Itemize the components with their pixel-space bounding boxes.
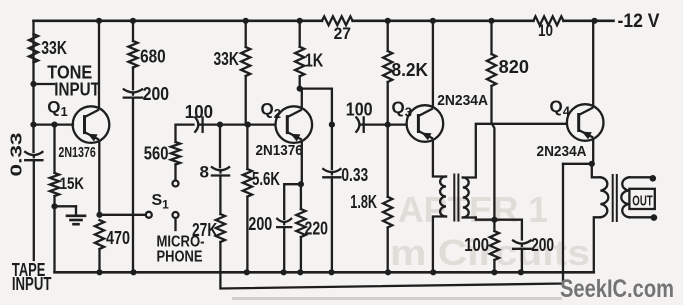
svg-text:INPUT: INPUT (12, 274, 52, 294)
transistor Q3 (407, 105, 444, 142)
wire bottom ground rail (55, 271, 594, 274)
svg-text:10: 10 (538, 21, 553, 40)
svg-text:27K: 27K (192, 220, 217, 240)
svg-text:0.33: 0.33 (341, 165, 368, 185)
wire top supply rail left segment (34, 19, 323, 22)
svg-text:200: 200 (531, 235, 554, 255)
wire 820 top lead (490, 21, 492, 54)
switch S1 pole contact (146, 212, 152, 218)
wire 200 cap bottom (281, 227, 287, 275)
resistor 27K (216, 214, 225, 242)
svg-text:33K: 33K (41, 38, 67, 58)
wire 33K2 top lead (243, 18, 249, 47)
svg-text:100: 100 (185, 102, 213, 122)
wire 680 to 200 cap (132, 68, 134, 90)
wire 470 bottom (96, 249, 102, 275)
wire 8uF top lead (219, 125, 221, 168)
transformer T2 primary winding (600, 177, 608, 217)
wire Q3 collector to rail (430, 18, 436, 107)
svg-text:27: 27 (334, 24, 351, 43)
resistor 15K (50, 173, 59, 196)
wire to ground symbol (55, 206, 77, 215)
wire Q4 emitter lead (592, 139, 594, 164)
resistor 33K (Q2 bias upper) (241, 47, 250, 76)
wire 8uF to 27K (219, 176, 221, 215)
wire 5.6K top lead (246, 125, 248, 169)
ground (67, 216, 85, 224)
wire tone input stub (34, 83, 55, 85)
svg-text:1.8K: 1.8K (350, 192, 377, 212)
wire T1 secondary bottom to node (463, 218, 495, 220)
ghost smudge bottom (232, 297, 562, 300)
wire Q2 collector lead (301, 89, 303, 108)
wire left column vertical (rail to 0.33 cap) (32, 21, 34, 152)
wire 15K bottom to ground rail (53, 196, 55, 272)
transistor Q1 (73, 106, 110, 143)
node tone-input junction (30, 81, 36, 87)
svg-text:2N1376: 2N1376 (256, 142, 303, 159)
resistor 560 (171, 142, 180, 165)
node Q2 emitter junction (298, 181, 304, 187)
resistor 820 (487, 54, 496, 86)
wire 8.2K bottom lead (387, 82, 389, 125)
wire 100cap to 560 corner (176, 125, 194, 142)
resistor 10 (inline, top rail) (533, 16, 563, 25)
resistor 1K (295, 47, 304, 77)
wire 0.33 bottom lead (328, 177, 334, 275)
capacitor 200 (first stage bypass) (124, 89, 142, 97)
svg-text:100: 100 (464, 235, 489, 255)
wire Q1 collector to rail (96, 18, 102, 109)
node T1 secondary bottom junction (491, 217, 497, 223)
wire 1.8K bottom lead (385, 228, 391, 276)
svg-text:200: 200 (143, 84, 169, 104)
transformer T2 core (613, 175, 617, 221)
svg-text:15K: 15K (60, 174, 85, 193)
wire 560 to S1 throw contact (174, 165, 176, 181)
svg-text:8: 8 (200, 163, 210, 182)
wire emitter to 200 cap (284, 184, 301, 219)
wire node to 200 cap (494, 220, 522, 240)
svg-text:100: 100 (346, 100, 373, 120)
capacitor 100 (coupling to Q3) (356, 117, 363, 131)
wire 33K2 bottom lead (245, 76, 247, 125)
node 8uF junction on Q2 base (217, 122, 223, 128)
resistor 470 (95, 220, 104, 249)
svg-text:OUT: OUT (632, 193, 652, 210)
svg-text:560: 560 (144, 143, 169, 163)
node 33K/5.6K junction on Q2 base (245, 122, 251, 128)
svg-text:5.6K: 5.6K (252, 169, 280, 189)
wire Q1 base (34, 123, 74, 125)
resistor 33K (R1) (29, 34, 38, 63)
capacitor 0.33 (tape input coupling) (25, 152, 42, 260)
node 470-S1 junction (96, 212, 102, 218)
node Q4 emitter junction (589, 161, 595, 167)
wire junction to S1 contact (100, 214, 146, 216)
OUT terminal box (629, 189, 654, 209)
switch S1 throw contact lower (173, 212, 179, 218)
wire Q2 base line (203, 123, 276, 125)
wire Q2 emitter lead (301, 141, 303, 184)
svg-text:470: 470 (106, 228, 130, 248)
svg-text:1K: 1K (305, 51, 324, 71)
transformer T2 secondary winding (621, 177, 629, 217)
wire 5.6K bottom lead (244, 197, 250, 276)
wire collector node to 0.33 column (300, 89, 332, 125)
svg-text:2N234A: 2N234A (437, 92, 488, 109)
wire T2 primary top lead (592, 164, 601, 178)
resistor 1.8K (383, 197, 392, 228)
wire Q1 emitter down (98, 141, 100, 215)
wire top supply rail right segment (564, 19, 614, 22)
wire 15K top lead (51, 122, 57, 173)
node 820 top (488, 18, 494, 24)
resistor 27 (inline, top rail) (322, 16, 353, 25)
svg-text:680: 680 (140, 47, 166, 67)
wire 220 bottom (297, 237, 303, 275)
wire second bottom rail (27K to Q4 emitter) (220, 164, 563, 289)
wire T1 secondary top to Q4 base (463, 124, 567, 178)
wire T1 primary bottom to ground (430, 217, 446, 276)
wire 680 column top lead (132, 21, 134, 41)
svg-text:INPUT: INPUT (54, 80, 100, 100)
wire Q3 emitter to T1 primary (433, 140, 446, 177)
svg-text:PHONE: PHONE (157, 249, 203, 266)
svg-text:SeekIC.com: SeekIC.com (560, 275, 674, 303)
resistor 220 (296, 209, 305, 237)
svg-text:8.2K: 8.2K (392, 60, 429, 80)
node Q3 base junction (385, 122, 391, 128)
svg-text:2N234A: 2N234A (537, 143, 587, 160)
node Q1 base junction (30, 122, 36, 128)
resistor 8.2K (383, 51, 392, 82)
resistor 680 (128, 41, 137, 68)
transformer T1 secondary winding (463, 178, 469, 218)
wire top supply rail middle segment (353, 19, 534, 22)
node 100cap/0.33 junction (329, 122, 335, 128)
capacitor 0.33 (Q2 collector) (323, 169, 340, 177)
svg-text:2N1376: 2N1376 (58, 144, 95, 161)
resistor 100 (Q4 bias) (490, 220, 499, 276)
wire 100 cap to Q3 base (364, 123, 407, 125)
svg-text:0.33: 0.33 (9, 132, 26, 176)
transistor Q2 (276, 106, 313, 143)
svg-text:200: 200 (248, 214, 272, 234)
wire Q2 emitter to 220 (300, 184, 302, 209)
wire 1K top lead (297, 18, 303, 47)
svg-text:-12 V: -12 V (618, 11, 660, 32)
transistor Q4 (567, 104, 604, 141)
transformer T1 core (454, 175, 458, 221)
svg-text:APTER 1: APTER 1 (398, 189, 548, 230)
resistor 5.6K (243, 169, 252, 197)
node 8.2K top (385, 18, 391, 24)
svg-text:820: 820 (499, 57, 529, 77)
node 15K bottom junction (51, 203, 57, 209)
wire microphone lead (174, 218, 176, 230)
svg-text:220: 220 (305, 219, 329, 239)
svg-text:33K: 33K (214, 49, 239, 69)
node Q2 collector junction (297, 86, 303, 92)
wire 8.2K top lead (387, 21, 389, 51)
wire T2 secondary top lead (629, 175, 656, 182)
wire Q4 collector to rail (591, 18, 597, 106)
node 680 top (130, 18, 136, 24)
wire Q4 emitter to feedback line (563, 163, 592, 165)
wire 200 cap to ground rail (130, 98, 136, 276)
transformer T1 primary winding (440, 177, 446, 217)
wire 200 cap bottom (518, 249, 524, 276)
wire 820 bottom lead (crosses Q4 base) (492, 86, 495, 220)
wire 0.33 top lead (331, 125, 333, 169)
wire T2 primary bottom to ground rail (594, 217, 601, 272)
capacitor 200 (Q4 base bypass) (513, 241, 531, 249)
capacitor 200 (Q2 emitter bypass) (277, 219, 291, 227)
wire 1.8K top lead (387, 125, 389, 197)
wire 1K bottom to collector node (299, 76, 301, 88)
capacitor 8 (mic coupling) (212, 167, 229, 175)
switch S1 throw contact upper (173, 181, 179, 187)
capacitor 100 (coupling to Q2) (195, 117, 202, 131)
wire T2 secondary bottom lead (629, 214, 657, 221)
